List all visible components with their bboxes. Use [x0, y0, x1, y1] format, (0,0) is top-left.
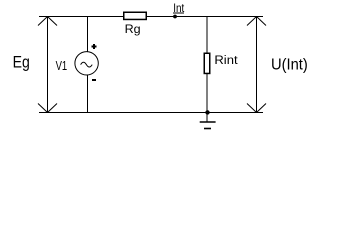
svg-text:U(Int): U(Int): [271, 56, 308, 73]
svg-text:V1: V1: [56, 58, 68, 73]
svg-text:Rint: Rint: [214, 53, 238, 67]
svg-text:Int: Int: [173, 1, 184, 15]
svg-text:Eg: Eg: [13, 54, 30, 72]
svg-text:Rg: Rg: [125, 22, 141, 36]
